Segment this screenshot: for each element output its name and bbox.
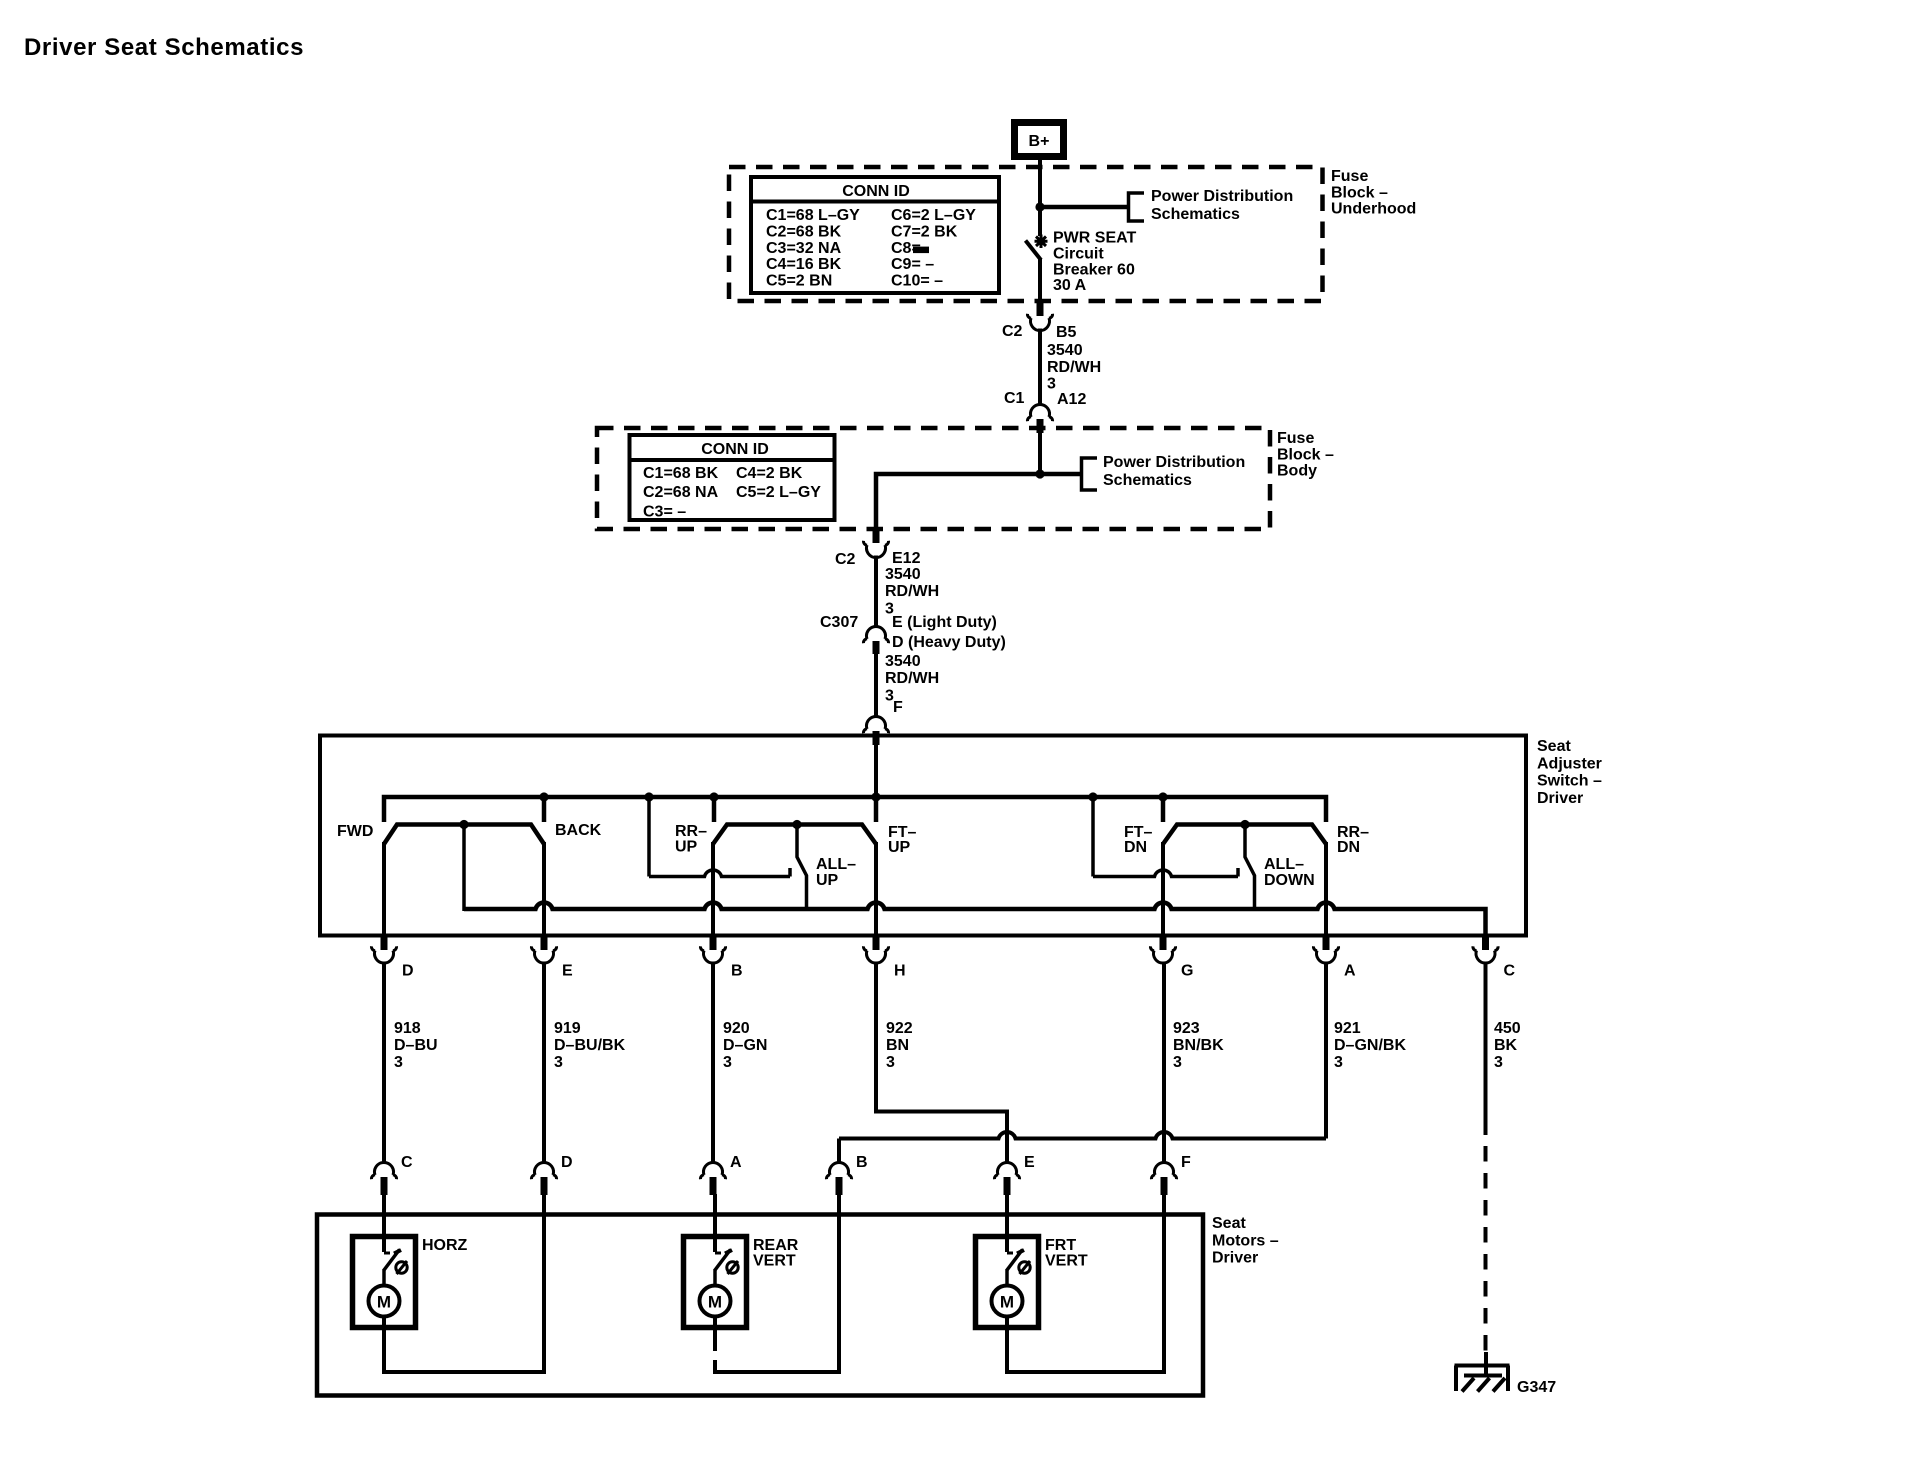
svg-text:Seat: Seat [1212, 1215, 1246, 1232]
svg-text:3: 3 [1173, 1054, 1182, 1071]
svg-text:919: 919 [554, 1020, 581, 1037]
svg-text:C1=68 L–GY: C1=68 L–GY [766, 207, 860, 224]
wire tap to power distribution (underhood) [1035, 202, 1128, 211]
CONN ID table (fuse block body) [630, 435, 835, 520]
svg-text:C2: C2 [1002, 323, 1023, 340]
svg-text:Body: Body [1277, 463, 1317, 480]
connector pin G (switch output) [1150, 936, 1193, 980]
wire FT-DN output to pin G [1161, 842, 1165, 936]
svg-text:30 A: 30 A [1053, 277, 1087, 294]
wire circuit 3540 RD/WH (underhood to body) [1040, 329, 1101, 405]
svg-text:A: A [1344, 963, 1356, 980]
svg-text:3: 3 [1047, 376, 1056, 393]
switch stub FT-DN contact [1161, 797, 1166, 822]
motor REAR VERT with thermal breaker [684, 1194, 799, 1328]
svg-text:CONN ID: CONN ID [842, 183, 910, 200]
wire tap to power distribution (body) [876, 469, 1081, 529]
switch blade ALL-UP [797, 826, 807, 911]
svg-text:E (Light Duty): E (Light Duty) [892, 614, 997, 631]
switch lower return bus to pin C [464, 902, 1486, 936]
svg-text:A: A [730, 1154, 742, 1171]
connector pin H (switch output) [863, 936, 905, 980]
connector pin B (switch output) [700, 936, 742, 980]
svg-text:918: 918 [394, 1020, 421, 1037]
svg-text:C3= –: C3= – [643, 503, 686, 520]
connector C2 pin B5 (fuse block underhood output) [1002, 301, 1077, 341]
svg-text:Fuse: Fuse [1331, 168, 1368, 185]
connector pin A (seat motors input) [700, 1154, 742, 1195]
svg-text:E: E [562, 963, 573, 980]
svg-text:Underhood: Underhood [1331, 201, 1416, 218]
wire circuit 3540 RD/WH (body to C307) [876, 556, 939, 627]
svg-text:DN: DN [1337, 839, 1360, 856]
svg-text:C9= –: C9= – [891, 256, 934, 273]
svg-text:Switch –: Switch – [1537, 773, 1602, 790]
svg-text:Driver: Driver [1537, 790, 1583, 807]
wire RR-DN output to pin A [1324, 842, 1328, 936]
svg-text:3540: 3540 [1047, 342, 1083, 359]
svg-text:Driver: Driver [1212, 1250, 1258, 1267]
svg-text:BK: BK [1494, 1037, 1518, 1054]
svg-text:B: B [856, 1154, 868, 1171]
connector pin D (seat motors input) [531, 1154, 572, 1195]
fuse block underhood label [1331, 168, 1416, 218]
svg-text:C6=2 L–GY: C6=2 L–GY [891, 207, 976, 224]
switch stub BACK contact [542, 797, 547, 822]
svg-text:RD/WH: RD/WH [885, 670, 939, 687]
svg-text:3: 3 [554, 1054, 563, 1071]
wire circuit 450 BK (pin C to ground G347) [1486, 962, 1521, 1363]
svg-text:Breaker 60: Breaker 60 [1053, 261, 1135, 278]
svg-text:Adjuster: Adjuster [1537, 755, 1602, 772]
svg-text:Seat: Seat [1537, 738, 1571, 755]
wire from B+ into fuse block [1038, 159, 1042, 236]
svg-text:C5=2 L–GY: C5=2 L–GY [736, 484, 821, 501]
wire circuit 923 BN/BK (pin G to frt vert motor) [1164, 962, 1224, 1165]
svg-text:Block –: Block – [1331, 184, 1388, 201]
battery feed B+ terminal [1015, 123, 1064, 157]
connector pin F (seat motors input) [1151, 1154, 1191, 1195]
svg-text:C1=68 BK: C1=68 BK [643, 465, 719, 482]
ground G347 [1455, 1352, 1557, 1396]
connector pin F (seat adjuster switch feed) [863, 716, 888, 745]
svg-text:F: F [1181, 1154, 1191, 1171]
svg-text:ALL–: ALL– [816, 856, 856, 873]
connector pin C (switch output) [1473, 936, 1516, 980]
svg-text:Block –: Block – [1277, 446, 1334, 463]
wire FT-UP output to pin H [874, 842, 878, 936]
connector C2 pin E12 (fuse block body output) [835, 529, 921, 568]
connector pin C (seat motors input) [371, 1154, 413, 1195]
reference bracket power distribution (underhood) [1129, 188, 1294, 223]
svg-text:A12: A12 [1057, 391, 1086, 408]
svg-text:921: 921 [1334, 1020, 1361, 1037]
svg-text:E12: E12 [892, 550, 921, 567]
svg-text:FRT: FRT [1045, 1237, 1076, 1254]
svg-text:C2=68 BK: C2=68 BK [766, 223, 842, 240]
svg-text:Motors –: Motors – [1212, 1232, 1279, 1249]
svg-text:C7=2 BK: C7=2 BK [891, 223, 958, 240]
wire BACK output to pin E [542, 842, 546, 936]
svg-text:3: 3 [723, 1054, 732, 1071]
svg-text:C2: C2 [835, 551, 856, 568]
wire circuit 918 D-BU (pin D to horz motor) [384, 962, 438, 1165]
switch rocker FWD/BACK [384, 820, 544, 844]
motor FRT VERT with thermal breaker [976, 1194, 1088, 1328]
svg-text:FWD: FWD [337, 823, 373, 840]
svg-text:UP: UP [888, 839, 911, 856]
wire rocker common to lower bus [462, 824, 466, 911]
svg-text:BACK: BACK [555, 822, 602, 839]
wire frt vert motor return to pin F [1007, 1194, 1164, 1372]
reference bracket power distribution (body) [1082, 454, 1246, 490]
svg-text:Schematics: Schematics [1151, 206, 1240, 223]
svg-text:H: H [894, 963, 906, 980]
svg-text:C5=2 BN: C5=2 BN [766, 273, 832, 290]
svg-text:C: C [401, 1154, 413, 1171]
svg-text:B: B [731, 963, 743, 980]
title: Driver Seat Schematics [24, 34, 304, 61]
svg-text:ALL–: ALL– [1264, 856, 1304, 873]
connector pin E (switch output) [531, 936, 573, 980]
svg-text:Fuse: Fuse [1277, 430, 1314, 447]
svg-text:D: D [402, 963, 414, 980]
svg-text:D (Heavy Duty): D (Heavy Duty) [892, 634, 1006, 651]
svg-text:Circuit: Circuit [1053, 245, 1104, 262]
svg-text:C4=16 BK: C4=16 BK [766, 256, 842, 273]
switch rocker RR-UP/FT-UP [713, 820, 876, 844]
wire from C1/A12 to body tap junction [1038, 432, 1042, 474]
seat motors driver box [317, 1215, 1203, 1396]
connector C1 pin A12 (fuse block body input) [1004, 390, 1086, 433]
svg-text:Power Distribution: Power Distribution [1151, 188, 1293, 205]
svg-text:CONN ID: CONN ID [701, 441, 769, 458]
svg-text:M: M [377, 1293, 391, 1312]
wire FWD output to pin D [382, 842, 386, 936]
switch stub FT-UP contact [874, 797, 879, 822]
switch stub RR-UP contact [712, 797, 717, 822]
wire circuit 920 D-GN (pin B to rear vert motor) [713, 962, 767, 1165]
wire circuit 921 D-GN/BK (pin A to rear vert motor) [839, 962, 1406, 1165]
seat adjuster switch driver box [320, 736, 1526, 936]
svg-text:B5: B5 [1056, 324, 1077, 341]
svg-text:3: 3 [886, 1054, 895, 1071]
svg-text:D: D [561, 1154, 573, 1171]
svg-text:M: M [1000, 1293, 1014, 1312]
wire RR-UP fixed contact from bus [649, 797, 790, 877]
svg-text:C10= –: C10= – [891, 273, 943, 290]
svg-text:G347: G347 [1517, 1379, 1556, 1396]
svg-text:920: 920 [723, 1020, 750, 1037]
svg-text:923: 923 [1173, 1020, 1200, 1037]
svg-text:C1: C1 [1004, 390, 1025, 407]
seat adjuster switch label [1537, 738, 1602, 807]
svg-text:D–BU: D–BU [394, 1037, 438, 1054]
switch common top bus [384, 792, 1326, 822]
fuse block underhood dashed box [729, 167, 1323, 301]
seat motors label [1212, 1215, 1279, 1267]
svg-text:D–GN/BK: D–GN/BK [1334, 1037, 1406, 1054]
wire RR-UP output to pin B [711, 842, 715, 936]
CONN ID table (fuse block underhood) [751, 177, 999, 293]
svg-text:HORZ: HORZ [422, 1237, 468, 1254]
svg-text:3: 3 [1334, 1054, 1343, 1071]
svg-text:M: M [708, 1293, 722, 1312]
svg-text:DN: DN [1124, 839, 1147, 856]
svg-text:DOWN: DOWN [1264, 872, 1315, 889]
svg-text:D–GN: D–GN [723, 1037, 767, 1054]
wire FT-DN fixed contact from bus [1093, 797, 1238, 877]
switch rocker FT-DN/RR-DN [1163, 820, 1326, 844]
wire circuit 3540 RD/WH (C307 to switch) [876, 652, 939, 717]
connector C307 pins E/D [820, 614, 1006, 654]
svg-text:3540: 3540 [885, 653, 921, 670]
connector pin E (seat motors input) [994, 1154, 1035, 1195]
svg-text:Driver Seat Schematics: Driver Seat Schematics [24, 34, 304, 61]
svg-text:C2=68 NA: C2=68 NA [643, 484, 719, 501]
svg-text:B+: B+ [1029, 133, 1050, 150]
svg-text:922: 922 [886, 1020, 913, 1037]
svg-text:3540: 3540 [885, 566, 921, 583]
wire circuit 919 D-BU/BK (pin E to horz motor) [544, 962, 626, 1165]
svg-text:RD/WH: RD/WH [1047, 359, 1101, 376]
svg-text:Power Distribution: Power Distribution [1103, 454, 1245, 471]
svg-text:450: 450 [1494, 1020, 1521, 1037]
svg-text:BN/BK: BN/BK [1173, 1037, 1224, 1054]
wire feed into switch common bus [874, 740, 878, 797]
wire horz motor return to pin D [384, 1194, 544, 1372]
svg-text:REAR: REAR [753, 1237, 799, 1254]
svg-text:VERT: VERT [753, 1253, 796, 1270]
connector pin B (seat motors input) [826, 1154, 867, 1195]
svg-text:C3=32 NA: C3=32 NA [766, 240, 842, 257]
svg-text:C307: C307 [820, 614, 858, 631]
svg-text:VERT: VERT [1045, 1253, 1088, 1270]
svg-text:C: C [1504, 963, 1516, 980]
svg-text:RD/WH: RD/WH [885, 583, 939, 600]
connector pin A (switch output) [1313, 936, 1356, 980]
wire circuit 922 BN (pin H to frt vert motor) [876, 962, 1007, 1165]
fuse block body dashed box [597, 428, 1270, 529]
svg-text:Schematics: Schematics [1103, 472, 1192, 489]
svg-text:UP: UP [816, 872, 839, 889]
svg-text:3: 3 [1494, 1054, 1503, 1071]
connector pin D (switch output) [371, 936, 413, 980]
svg-text:PWR SEAT: PWR SEAT [1053, 230, 1136, 247]
svg-text:F: F [893, 699, 903, 716]
wire rear vert motor return to pin B [715, 1194, 839, 1372]
svg-text:BN: BN [886, 1037, 909, 1054]
svg-text:G: G [1181, 963, 1193, 980]
svg-text:E: E [1024, 1154, 1035, 1171]
switch position labels [337, 822, 1369, 889]
fuse block body label [1277, 430, 1334, 480]
svg-text:D–BU/BK: D–BU/BK [554, 1037, 626, 1054]
svg-text:C4=2 BK: C4=2 BK [736, 465, 803, 482]
svg-text:RR–: RR– [675, 823, 707, 840]
svg-text:3: 3 [394, 1054, 403, 1071]
circuit breaker PWR SEAT 60 30A [1026, 230, 1137, 302]
motor HORZ with thermal breaker [353, 1194, 468, 1328]
svg-text:UP: UP [675, 839, 698, 856]
switch blade ALL-DOWN [1245, 826, 1255, 911]
